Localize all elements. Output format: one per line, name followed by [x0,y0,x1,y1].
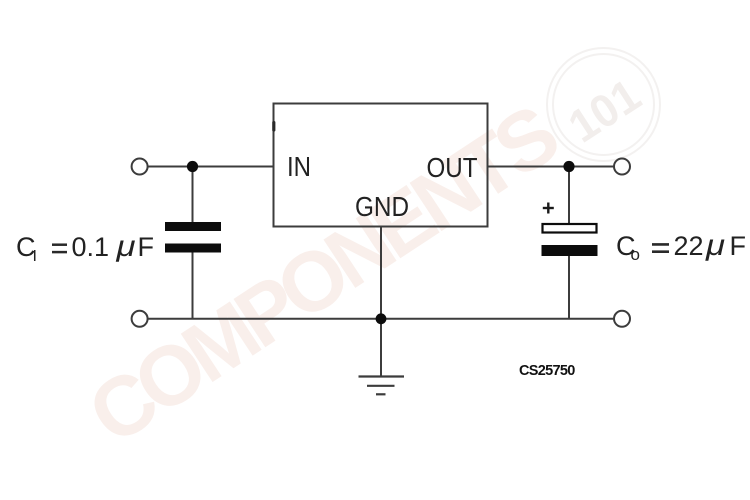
watermark COMPONENTS text [72,86,575,462]
watermark 101 text [559,68,649,152]
svg-text:101: 101 [559,68,649,152]
svg-text:0.1: 0.1 [72,232,110,262]
svg-text:OUT: OUT [427,152,478,183]
terminal circle output top [614,159,630,175]
capacitor C_O top plate (outline) [543,224,597,233]
svg-text:IN: IN [287,151,311,182]
regulator box U1 [274,104,488,227]
capacitor C_O plus sign [543,203,554,214]
svg-text:I: I [33,248,37,265]
capacitor C_I top plate [165,222,221,231]
watermark ring inner [553,54,654,155]
svg-text:F: F [138,232,155,262]
wire bottom rail [147,318,614,320]
label C_I value [16,230,154,265]
wire GND pin down to ground [380,227,382,377]
svg-text:μ: μ [115,230,135,263]
capacitor C_O bottom plate [542,245,598,256]
svg-text:o: o [631,245,640,264]
terminal circle output bottom [614,311,630,327]
wire C_I top [192,167,194,224]
svg-text:GND: GND [355,191,409,222]
wire OUT to output terminal [488,166,615,168]
svg-text:22: 22 [674,231,704,261]
ground symbol [359,377,405,395]
terminal circle input bottom [132,311,148,327]
svg-text:COMPONENTS: COMPONENTS [72,86,575,462]
label C_O value [616,229,746,264]
wire C_O top [568,167,570,224]
junction dot ground node [376,313,387,324]
wire C_O bottom [568,255,570,319]
junction dot input node [187,161,198,172]
capacitor C_I bottom plate [165,244,221,253]
wire C_I bottom [192,251,194,319]
terminal circle input top [132,159,148,175]
junction dot output node [563,161,574,172]
wire input terminal to IN [147,166,274,168]
svg-text:CS25750: CS25750 [519,363,575,379]
svg-text:μ: μ [705,229,725,262]
svg-text:F: F [730,231,747,261]
box edge tick [272,121,275,132]
watermark ring outer [547,48,660,161]
